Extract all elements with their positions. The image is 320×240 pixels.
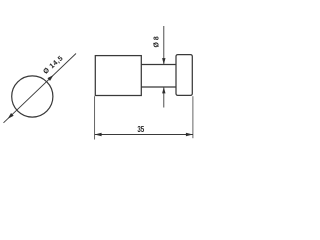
svg-text:Ø 14,5: Ø 14,5 [42,55,64,76]
svg-text:35: 35 [137,125,144,134]
svg-text:Ø 8: Ø 8 [154,36,161,47]
